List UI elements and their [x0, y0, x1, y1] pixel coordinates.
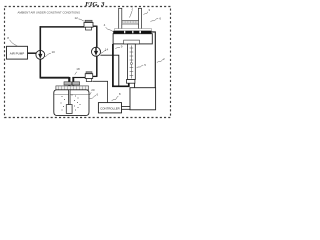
wire pipe into sensor S2 — [93, 75, 98, 77]
humidity sensor V2 body — [85, 74, 93, 79]
bottle lid band — [56, 86, 89, 90]
bubbles — [61, 95, 81, 111]
support rod — [127, 44, 135, 80]
stage electrode black bar — [113, 31, 151, 34]
regulator valve V1 body — [84, 23, 93, 28]
sensor stage right post — [138, 8, 141, 31]
wire stage bar right to instrument box — [152, 32, 156, 88]
bottle liquid level — [54, 93, 88, 95]
svg-text:FIG. 3: FIG. 3 — [85, 1, 105, 8]
svg-text:AMBIENT AIR UNDER CONSTANT CON: AMBIENT AIR UNDER CONSTANT CONDITIONS — [18, 10, 81, 14]
wire FM2 to U junction — [100, 55, 118, 86]
wire sensor V2 to controller — [92, 81, 107, 102]
wire pipe air-pump outlet — [28, 52, 37, 54]
humidity sensor V2 cap — [86, 72, 92, 74]
sensor stage left post — [119, 8, 122, 31]
wire pipe bottle feed horizontal — [40, 77, 70, 79]
support rod bottom cap — [127, 80, 135, 84]
diffuser stone — [66, 105, 72, 114]
stage base inner pedestal — [124, 40, 140, 44]
support rod middle circle — [130, 62, 132, 64]
wire pipe vertical main — [39, 26, 41, 78]
wire pipe vertical branch2 — [96, 26, 98, 77]
humidity sensor V2 skirt — [86, 79, 91, 82]
tube T1 inside bottle — [68, 90, 70, 105]
stage white bar — [115, 29, 152, 31]
chamber dashed border — [5, 7, 171, 118]
controller box — [98, 103, 121, 113]
wire pipe valve1 outlet — [93, 25, 97, 27]
tube T1 into bottle — [68, 77, 70, 105]
air pump box — [7, 46, 28, 59]
svg-text:AIR PUMP: AIR PUMP — [10, 52, 25, 56]
svg-text:12: 12 — [75, 16, 79, 20]
flow meter FM1 circle — [36, 50, 45, 59]
flow meter FM2 arrow — [95, 47, 97, 52]
tube T2 horizontal to sensor V2 — [72, 77, 85, 79]
flow meter FM2 circle — [92, 47, 101, 56]
bottle cap port1 — [64, 82, 72, 85]
tube T2 from bottle — [72, 77, 74, 85]
bottle body — [54, 90, 89, 116]
svg-text:18: 18 — [76, 67, 80, 71]
instrument box — [130, 88, 156, 110]
wire controller to instrument box lower — [122, 108, 131, 110]
svg-text:10: 10 — [52, 50, 56, 54]
regulator valve V1 skirt — [86, 27, 92, 30]
wire controller to instrument box upper — [122, 105, 131, 107]
thick U wire stage to rod — [113, 44, 129, 86]
bottle cap port2 — [72, 82, 79, 85]
svg-text:20: 20 — [91, 88, 95, 92]
support rod centerline and ticks — [130, 46, 132, 79]
stage base box — [113, 34, 152, 44]
bottle lid threads — [59, 86, 86, 89]
regulator valve V1 cap — [85, 20, 92, 22]
wire pipe top horizontal — [40, 26, 85, 28]
sample slab — [122, 20, 139, 24]
flow meter FM1 arrow — [39, 51, 41, 56]
svg-text:CONTROLLER: CONTROLLER — [100, 106, 120, 110]
leader numeral below stage box — [115, 47, 120, 48]
wire rod cap to instrument box — [134, 83, 136, 88]
